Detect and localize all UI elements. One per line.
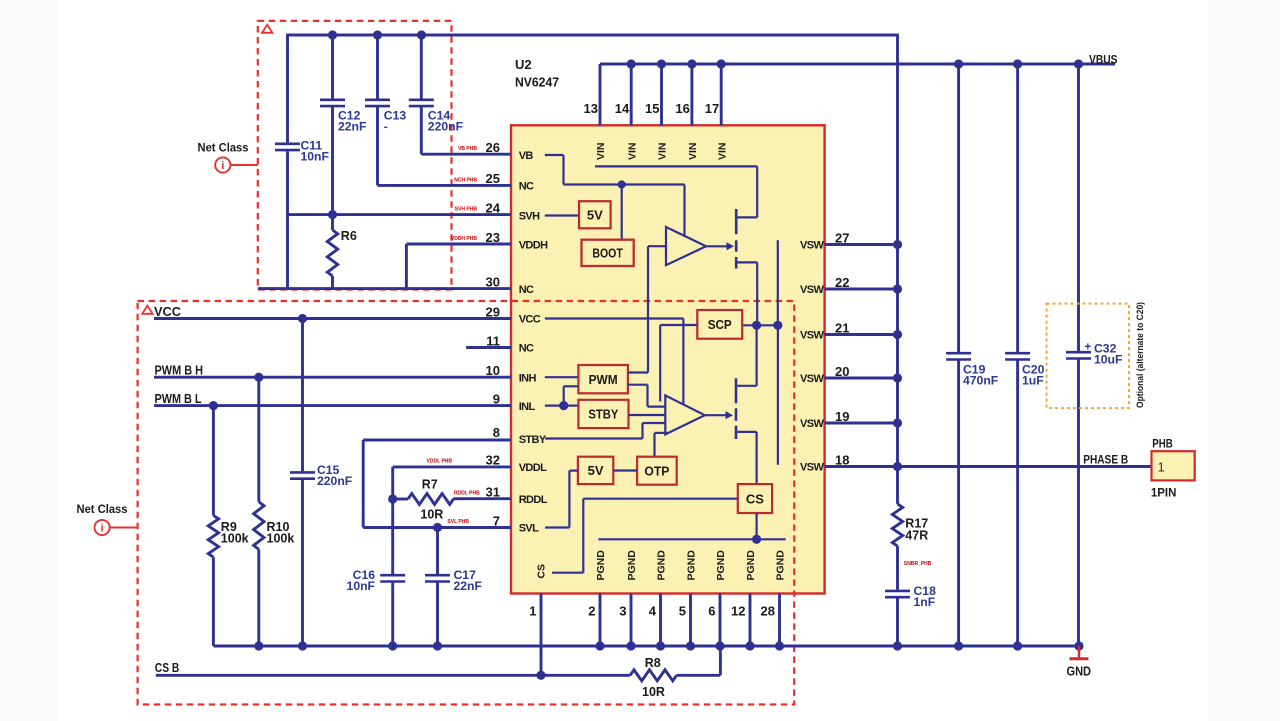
svg-text:26: 26 (486, 140, 500, 155)
svg-text:23: 23 (486, 230, 500, 245)
svg-text:10R: 10R (642, 685, 665, 699)
svg-text:GND: GND (1067, 665, 1092, 679)
svg-text:11: 11 (486, 333, 500, 348)
svg-text:9: 9 (493, 391, 500, 406)
svg-text:10uF: 10uF (1094, 353, 1122, 367)
svg-text:10R: 10R (420, 508, 443, 522)
svg-text:SNBR_PHB: SNBR_PHB (904, 561, 932, 567)
svg-text:22: 22 (835, 275, 849, 290)
svg-text:INH: INH (519, 372, 537, 384)
svg-text:VDDH PHB: VDDH PHB (451, 236, 478, 242)
svg-text:PGND: PGND (745, 550, 757, 581)
svg-text:30: 30 (486, 274, 500, 289)
svg-text:1nF: 1nF (914, 595, 936, 609)
svg-text:NCH PHB: NCH PHB (454, 177, 477, 183)
svg-text:NV6247: NV6247 (515, 75, 559, 90)
svg-text:SVH PHB: SVH PHB (455, 207, 478, 213)
svg-text:PWM B L: PWM B L (155, 392, 202, 406)
svg-text:CS: CS (536, 564, 548, 579)
svg-text:5V: 5V (588, 463, 604, 478)
svg-text:24: 24 (486, 200, 501, 215)
svg-text:VB: VB (519, 150, 534, 162)
svg-text:VB PHB: VB PHB (458, 146, 477, 152)
svg-text:VDDH: VDDH (519, 240, 548, 252)
svg-text:14: 14 (615, 101, 630, 116)
svg-text:i: i (101, 523, 104, 535)
svg-text:10nF: 10nF (347, 579, 375, 593)
svg-text:R7: R7 (422, 478, 438, 492)
svg-text:SVH: SVH (519, 211, 540, 223)
svg-text:RDDL: RDDL (519, 494, 548, 506)
svg-text:BOOT: BOOT (592, 246, 623, 261)
svg-text:CS: CS (746, 491, 764, 506)
svg-text:220nF: 220nF (428, 120, 463, 134)
svg-text:18: 18 (835, 452, 849, 467)
svg-text:INL: INL (519, 401, 536, 413)
svg-text:VSW: VSW (800, 330, 824, 342)
svg-text:R6: R6 (341, 229, 357, 243)
svg-text:VCC: VCC (519, 314, 541, 326)
svg-text:STBY: STBY (588, 407, 618, 422)
svg-text:10: 10 (486, 363, 500, 378)
svg-text:U2: U2 (515, 57, 532, 72)
svg-text:VSW: VSW (800, 240, 824, 252)
svg-text:NC: NC (519, 343, 534, 355)
svg-text:47R: 47R (905, 529, 928, 543)
svg-text:VSW: VSW (800, 462, 824, 474)
svg-text:2: 2 (588, 604, 595, 619)
svg-text:VIN: VIN (657, 142, 669, 160)
svg-text:1: 1 (1158, 460, 1165, 475)
svg-text:PGND: PGND (686, 550, 698, 581)
svg-text:VDDL: VDDL (519, 462, 547, 474)
svg-text:VIN: VIN (595, 142, 607, 160)
svg-text:5: 5 (679, 604, 686, 619)
svg-text:+: + (1085, 342, 1092, 354)
svg-text:PWM B H: PWM B H (155, 364, 204, 378)
svg-text:25: 25 (486, 171, 500, 186)
svg-text:OTP: OTP (644, 463, 669, 478)
svg-text:4: 4 (649, 604, 657, 619)
svg-text:CS B: CS B (155, 661, 180, 675)
svg-text:Optional (alternate to C20): Optional (alternate to C20) (1135, 302, 1145, 408)
svg-text:SCP: SCP (708, 317, 732, 332)
svg-text:27: 27 (835, 230, 849, 245)
svg-text:PGND: PGND (595, 550, 607, 581)
svg-text:i: i (221, 160, 224, 172)
svg-text:21: 21 (835, 320, 849, 335)
svg-text:VSW: VSW (800, 418, 824, 430)
svg-text:PHB: PHB (1152, 436, 1173, 450)
svg-text:17: 17 (705, 101, 719, 116)
svg-text:7: 7 (493, 513, 500, 528)
svg-text:PGND: PGND (626, 550, 638, 581)
svg-text:VBUS: VBUS (1089, 53, 1118, 67)
svg-text:22nF: 22nF (454, 579, 482, 593)
svg-text:100k: 100k (221, 532, 249, 546)
svg-text:NC: NC (519, 181, 534, 193)
svg-text:5V: 5V (587, 208, 603, 223)
svg-text:SVL PHB: SVL PHB (447, 519, 469, 525)
svg-text:VSW: VSW (800, 284, 824, 296)
svg-text:1uF: 1uF (1022, 374, 1044, 388)
svg-text:16: 16 (675, 101, 689, 116)
svg-text:R8: R8 (645, 656, 661, 670)
svg-text:19: 19 (835, 409, 849, 424)
svg-text:VCC: VCC (154, 305, 181, 319)
svg-text:VIN: VIN (626, 142, 638, 160)
svg-text:PWM: PWM (589, 372, 618, 387)
svg-text:31: 31 (486, 485, 500, 500)
svg-text:PGND: PGND (775, 550, 787, 581)
svg-text:PGND: PGND (656, 550, 668, 581)
svg-text:Net Class: Net Class (77, 502, 128, 516)
svg-text:32: 32 (486, 453, 500, 468)
svg-text:RDDL PHB: RDDL PHB (454, 490, 480, 496)
svg-text:1: 1 (529, 604, 536, 619)
svg-text:STBY: STBY (519, 434, 547, 446)
svg-text:6: 6 (708, 604, 715, 619)
svg-text:VIN: VIN (687, 142, 699, 160)
svg-text:100k: 100k (267, 532, 295, 546)
svg-text:15: 15 (645, 101, 659, 116)
svg-text:20: 20 (835, 364, 849, 379)
svg-text:29: 29 (486, 304, 500, 319)
svg-text:Net Class: Net Class (198, 141, 249, 155)
svg-text:8: 8 (493, 425, 500, 440)
svg-text:-: - (384, 120, 388, 134)
svg-text:3: 3 (619, 604, 626, 619)
svg-text:470nF: 470nF (963, 374, 998, 388)
svg-text:13: 13 (584, 101, 598, 116)
svg-text:VDDL PHB: VDDL PHB (427, 459, 453, 465)
svg-text:28: 28 (761, 604, 775, 619)
svg-text:220nF: 220nF (317, 474, 352, 488)
svg-text:10nF: 10nF (301, 150, 329, 164)
svg-text:12: 12 (731, 604, 745, 619)
svg-text:PHASE B: PHASE B (1083, 453, 1128, 467)
svg-text:SVL: SVL (519, 523, 539, 535)
svg-text:VIN: VIN (716, 142, 728, 160)
svg-text:NC: NC (519, 284, 534, 296)
svg-text:VSW: VSW (800, 373, 824, 385)
svg-text:PGND: PGND (715, 550, 727, 581)
svg-text:22nF: 22nF (338, 120, 366, 134)
svg-text:1PIN: 1PIN (1151, 485, 1177, 499)
